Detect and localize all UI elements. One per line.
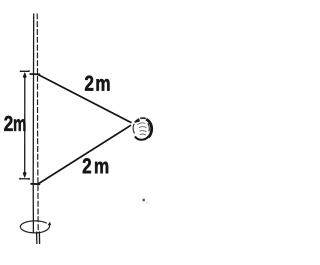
ball left outline (broken, light) (133, 124, 134, 134)
bottom arrowhead (23, 172, 27, 178)
lower attachment tick (30, 183, 40, 185)
label 2 m (lower string) (83, 158, 108, 173)
ball top sketch patches (135, 118, 146, 122)
bottom end tick (20, 178, 30, 180)
pole right line (37, 14, 38, 234)
upper attachment tick (30, 73, 41, 75)
ellipse arc (20, 221, 49, 233)
top arrowhead (23, 72, 27, 78)
ball heavy right rim (146, 119, 151, 137)
ellipse arrowhead (48, 222, 52, 226)
label 2 m (left, vertical distance) (4, 116, 25, 131)
rotation ellipse around pole (20, 221, 51, 233)
dimension vertical line (24, 74, 26, 177)
top end tick (20, 70, 29, 72)
faint speck (147, 202, 148, 203)
pole left line (32, 14, 35, 234)
label 2 m (upper string) (85, 76, 110, 91)
ball heavy bottom rim (135, 136, 149, 140)
ball top-left dark blob (136, 120, 139, 121)
pole lower-left segment below ellipse (36, 232, 38, 245)
dimension line (2 m between attachments) (20, 70, 30, 180)
ball (sketched sphere) (133, 118, 152, 140)
lower string (2 m) (38, 125, 131, 184)
ball inner edge shading right (148, 123, 149, 131)
ball interior squiggles (137, 123, 146, 135)
pole lower-right segment below ellipse (38, 232, 40, 245)
upper string (2 m) (38, 74, 132, 123)
speck (scan noise) (143, 199, 145, 201)
